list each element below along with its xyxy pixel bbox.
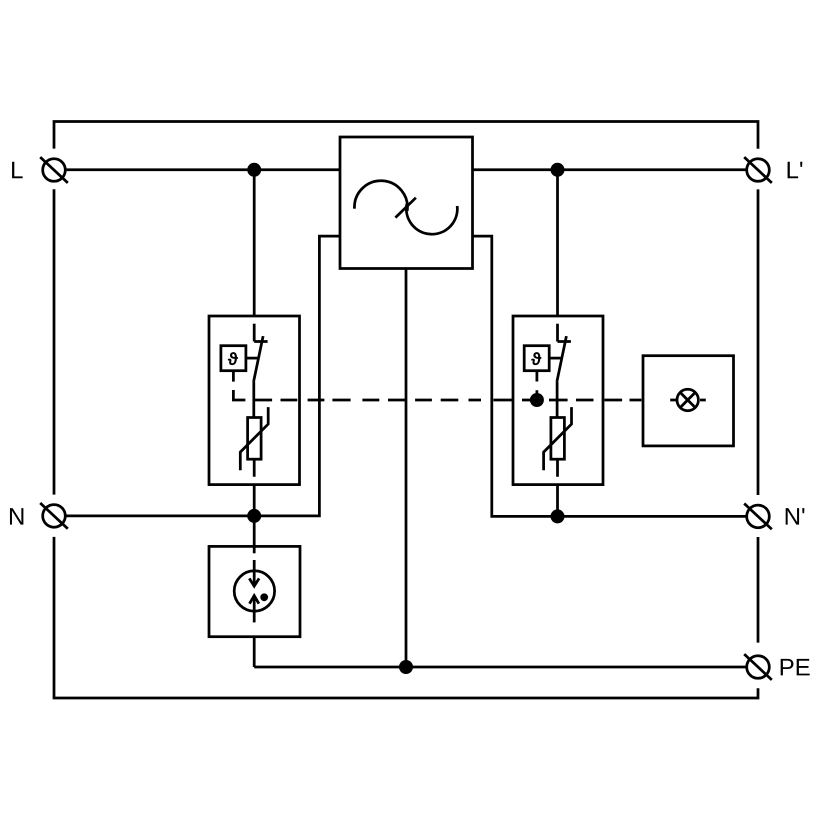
wire filter box bottom to PE junction — [405, 269, 408, 668]
dot inside spark gap F3 — [260, 593, 268, 601]
surge arrester F1 (left: varistor with thermal disconnector) — [209, 170, 300, 516]
wire theta box to blade F1 — [246, 357, 258, 360]
spark gap F3 (box with gas discharge tube symbol) — [209, 516, 300, 667]
indicator lamp H1 (box with lamp) — [643, 356, 734, 446]
label L — [12, 162, 23, 179]
wire blade to varistor F1 — [252, 382, 255, 418]
switch stub F1 — [253, 324, 256, 342]
switch tick F2 — [558, 340, 571, 343]
varistor strike F1 — [240, 407, 268, 470]
arrow up shaft F3 — [253, 596, 256, 623]
wire varistor to N' junction F2 — [556, 459, 559, 516]
node L' branch junction — [551, 163, 565, 177]
filter U1 (box with sine wave and slash) — [340, 137, 473, 269]
label theta F2 — [531, 352, 541, 365]
wire N: filter box left stub, down, to terminal N — [65, 236, 340, 516]
wire top frame with corner drops — [54, 122, 758, 149]
wire L (terminal L to filter box) — [65, 168, 340, 171]
node PE junction — [399, 660, 413, 674]
dashed mechanical linkage line (hand-placed dashes) — [233, 371, 705, 400]
terminal L — [40, 157, 68, 183]
terminal L' — [744, 157, 772, 183]
node linkage junction in F2 — [530, 393, 544, 407]
node N' junction — [551, 509, 565, 523]
label N — [10, 508, 23, 525]
switch tick F1 — [254, 340, 267, 343]
node L branch junction — [247, 163, 261, 177]
wire F3 to PE line — [253, 637, 256, 667]
thermal sensor box F1 (theta) — [221, 346, 246, 371]
wire left frame middle (L to N) — [53, 189, 56, 494]
arrow down head F3 — [249, 578, 259, 586]
arrow down shaft F3 — [253, 560, 256, 586]
wire right frame L' to N' — [757, 189, 760, 495]
label theta F1 — [228, 352, 238, 365]
switch blade F1 — [254, 336, 264, 382]
wire PE (spark gap to terminal PE) — [254, 666, 747, 669]
wire L' branch into F2 — [556, 170, 559, 316]
terminal N — [40, 503, 68, 529]
wire L' (filter box to terminal L') — [473, 168, 747, 171]
terminal PE — [744, 654, 772, 680]
dashed linkage vertical at F2 — [536, 371, 539, 395]
wire L branch into F1 — [253, 170, 256, 316]
label L' — [788, 162, 803, 179]
wire varistor to N junction F1 — [253, 459, 256, 516]
varistor body F2 — [551, 418, 565, 460]
terminal N' — [744, 504, 772, 530]
wire N': filter box right stub, down, to terminal N' — [473, 236, 747, 516]
varistor body F1 — [248, 418, 262, 460]
switch stub F2 — [556, 324, 559, 342]
wire right frame N' to PE — [757, 537, 760, 643]
wire N junction into F3 — [253, 516, 256, 553]
node N junction — [247, 509, 261, 523]
surge arrester F2 (right: varistor with thermal disconnector) — [513, 170, 603, 517]
arrow up head F3 — [250, 596, 259, 604]
switch blade F2 — [557, 336, 567, 382]
wire theta box to blade F2 — [549, 357, 561, 360]
thermal sensor box F2 (theta) — [524, 346, 549, 371]
wire left frame lower, bottom frame, right riser to PE — [54, 537, 758, 698]
label PE — [781, 659, 810, 676]
wire blade to varistor F2 — [556, 382, 559, 418]
label N' — [786, 508, 805, 525]
varistor strike F2 — [544, 407, 572, 470]
